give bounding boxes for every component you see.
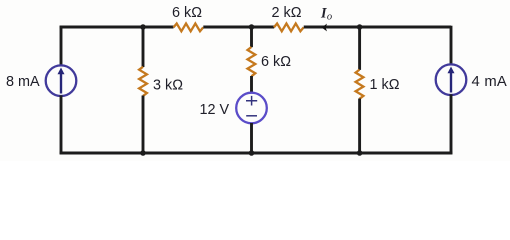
- resistor R 1k vertical zigzag: [356, 70, 364, 99]
- wire: branch 1k lower: [358, 99, 361, 154]
- wire: branch 1k upper: [358, 27, 361, 70]
- node dot top at 1k branch: [357, 24, 363, 30]
- svg-text:3 kΩ: 3 kΩ: [153, 78, 183, 94]
- wire: bottom rail: [60, 152, 453, 155]
- wire: left rail lower: [60, 95, 63, 154]
- current source I1 8mA circle: [46, 65, 77, 96]
- voltage source V1 plus sign: [246, 96, 257, 106]
- wire: branch mid upper: [250, 27, 253, 47]
- current source I2 4mA circle: [436, 64, 467, 95]
- node dot top at 3k branch: [140, 24, 146, 30]
- node dot bottom at mid branch: [249, 150, 255, 156]
- svg-text:6 kΩ: 6 kΩ: [172, 5, 202, 21]
- voltage source V1 12V circle: [236, 93, 267, 124]
- wire: left rail upper: [60, 26, 63, 66]
- resistor R top-right 2k zigzag: [274, 24, 304, 32]
- wire: branch mid lower: [250, 123, 253, 153]
- current source I2 arrow: [450, 71, 452, 93]
- svg-text:4 mA: 4 mA: [472, 74, 508, 90]
- current source I1 arrow: [60, 72, 62, 94]
- wire: right rail lower: [450, 94, 453, 154]
- node dot bottom at 3k branch: [140, 150, 146, 156]
- wire: branch mid between R and source: [250, 76, 253, 93]
- wire: top rail right segment: [304, 26, 451, 29]
- svg-text:12 V: 12 V: [200, 102, 230, 118]
- current arrow Io (left-pointing arrowhead on wire): [322, 24, 327, 32]
- wire: right rail upper: [450, 26, 453, 65]
- wire: branch 3k upper: [142, 27, 145, 67]
- resistor R 6k vertical zigzag: [248, 47, 256, 76]
- resistor R 3k vertical zigzag: [139, 67, 147, 96]
- node dot top at mid branch: [249, 24, 255, 30]
- node dot bottom at 1k branch: [357, 150, 363, 156]
- svg-text:6 kΩ: 6 kΩ: [261, 54, 291, 70]
- svg-text:8 mA: 8 mA: [6, 74, 40, 90]
- svg-text:1 kΩ: 1 kΩ: [370, 77, 400, 93]
- svg-text:Io: Io: [320, 6, 332, 23]
- wire: top rail left segment: [60, 26, 174, 29]
- voltage source V1 minus sign: [246, 115, 257, 117]
- resistor R top-left 6k zigzag: [174, 24, 204, 32]
- svg-text:2 kΩ: 2 kΩ: [272, 5, 302, 21]
- wire: top rail middle segment: [203, 26, 274, 29]
- wire: branch 3k lower: [142, 96, 145, 154]
